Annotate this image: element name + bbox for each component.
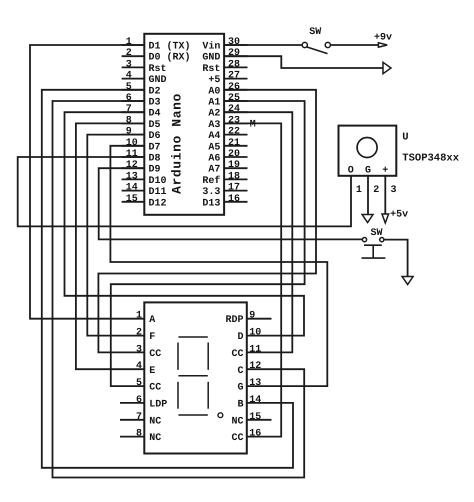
- svg-text:5: 5: [126, 82, 132, 93]
- svg-text:F: F: [149, 332, 155, 343]
- svg-text:CC: CC: [149, 349, 161, 360]
- svg-text:27: 27: [228, 71, 240, 82]
- svg-text:G: G: [237, 383, 243, 394]
- svg-text:7: 7: [126, 104, 132, 115]
- svg-text:LDP: LDP: [149, 399, 167, 410]
- svg-text:D5: D5: [149, 120, 161, 131]
- svg-text:G: G: [365, 165, 371, 176]
- svg-text:D10: D10: [149, 176, 167, 187]
- svg-text:2: 2: [126, 48, 132, 59]
- svg-text:D3: D3: [149, 98, 161, 109]
- svg-text:11: 11: [126, 149, 138, 160]
- svg-text:25: 25: [228, 93, 240, 104]
- svg-text:SW: SW: [309, 27, 321, 38]
- svg-text:U: U: [402, 132, 408, 144]
- svg-text:D8: D8: [149, 154, 161, 165]
- svg-text:C: C: [237, 366, 243, 377]
- svg-text:22: 22: [228, 127, 240, 138]
- svg-text:3: 3: [136, 344, 142, 355]
- svg-text:GND: GND: [149, 75, 167, 86]
- svg-text:D6: D6: [149, 131, 161, 142]
- svg-text:D4: D4: [149, 109, 161, 120]
- svg-text:29: 29: [228, 48, 240, 59]
- svg-text:CC: CC: [149, 383, 161, 394]
- svg-text:8: 8: [136, 429, 142, 440]
- svg-text:A2: A2: [208, 109, 220, 120]
- svg-text:D0 (RX): D0 (RX): [149, 52, 191, 64]
- svg-text:D9: D9: [149, 165, 161, 176]
- svg-text:D7: D7: [149, 142, 161, 153]
- svg-text:10: 10: [249, 328, 261, 339]
- svg-text:Vin: Vin: [202, 41, 220, 53]
- svg-text:4: 4: [126, 71, 132, 82]
- svg-text:M: M: [250, 120, 256, 131]
- svg-text:4: 4: [136, 361, 142, 372]
- svg-text:3.3: 3.3: [202, 187, 220, 198]
- svg-text:TSOP348xx: TSOP348xx: [402, 153, 459, 165]
- svg-text:8: 8: [126, 115, 132, 126]
- svg-text:24: 24: [228, 104, 240, 115]
- svg-text:D2: D2: [149, 86, 161, 97]
- svg-text:20: 20: [228, 149, 240, 160]
- svg-text:1: 1: [356, 185, 362, 196]
- svg-text:12: 12: [249, 361, 261, 372]
- svg-text:E: E: [149, 366, 155, 377]
- svg-text:A6: A6: [208, 154, 220, 165]
- svg-text:D: D: [237, 332, 243, 343]
- svg-text:9: 9: [126, 127, 132, 138]
- svg-text:16: 16: [228, 194, 240, 205]
- svg-text:A0: A0: [208, 86, 220, 97]
- svg-text:D13: D13: [202, 198, 220, 209]
- svg-text:A: A: [149, 315, 155, 326]
- svg-text:A4: A4: [208, 131, 220, 142]
- svg-text:+5v: +5v: [390, 210, 408, 221]
- svg-text:A1: A1: [208, 98, 220, 109]
- svg-text:A3: A3: [208, 120, 220, 131]
- svg-text:D11: D11: [149, 187, 167, 198]
- svg-text:1: 1: [136, 311, 142, 322]
- svg-text:NC: NC: [231, 416, 243, 427]
- svg-text:CC: CC: [231, 433, 243, 444]
- svg-text:3: 3: [126, 59, 132, 70]
- svg-text:Rst: Rst: [149, 64, 167, 75]
- svg-text:Rst: Rst: [202, 64, 220, 75]
- svg-text:14: 14: [126, 183, 138, 194]
- svg-text:D1 (TX): D1 (TX): [149, 41, 191, 53]
- svg-text:6: 6: [136, 395, 142, 406]
- svg-text:5: 5: [136, 378, 142, 389]
- svg-text:19: 19: [228, 160, 240, 171]
- svg-text:Ref: Ref: [202, 175, 220, 187]
- svg-text:2: 2: [136, 328, 142, 339]
- svg-text:NC: NC: [149, 433, 161, 444]
- svg-text:6: 6: [126, 93, 132, 104]
- svg-text:+9v: +9v: [374, 33, 392, 44]
- svg-text:RDP: RDP: [225, 315, 243, 326]
- svg-text:15: 15: [126, 194, 138, 205]
- svg-text:NC: NC: [149, 416, 161, 427]
- svg-text:O: O: [348, 165, 354, 176]
- svg-text:9: 9: [249, 311, 255, 322]
- svg-text:1: 1: [126, 37, 132, 48]
- svg-text:CC: CC: [231, 349, 243, 360]
- svg-text:17: 17: [228, 183, 240, 194]
- svg-text:12: 12: [126, 160, 138, 171]
- svg-text:10: 10: [126, 138, 138, 149]
- svg-text:A7: A7: [208, 165, 220, 176]
- svg-text:30: 30: [228, 37, 240, 48]
- svg-text:18: 18: [228, 171, 240, 182]
- svg-text:21: 21: [228, 138, 240, 149]
- svg-text:16: 16: [249, 429, 261, 440]
- svg-text:A5: A5: [208, 142, 220, 153]
- svg-text:14: 14: [249, 395, 261, 406]
- svg-text:Arduino Nano: Arduino Nano: [170, 93, 185, 194]
- svg-text:7: 7: [136, 412, 142, 423]
- svg-text:15: 15: [249, 412, 261, 423]
- svg-text:23: 23: [228, 115, 240, 126]
- svg-text:B: B: [237, 399, 243, 410]
- svg-text:11: 11: [249, 344, 261, 355]
- svg-text:D12: D12: [149, 198, 167, 209]
- svg-text:+: +: [382, 165, 388, 176]
- svg-text:+5: +5: [208, 75, 220, 86]
- svg-text:GND: GND: [202, 53, 220, 64]
- svg-text:26: 26: [228, 82, 240, 93]
- svg-text:2: 2: [373, 185, 379, 196]
- svg-text:3: 3: [391, 185, 397, 196]
- svg-text:28: 28: [228, 59, 240, 70]
- svg-text:13: 13: [126, 171, 138, 182]
- svg-text:13: 13: [249, 378, 261, 389]
